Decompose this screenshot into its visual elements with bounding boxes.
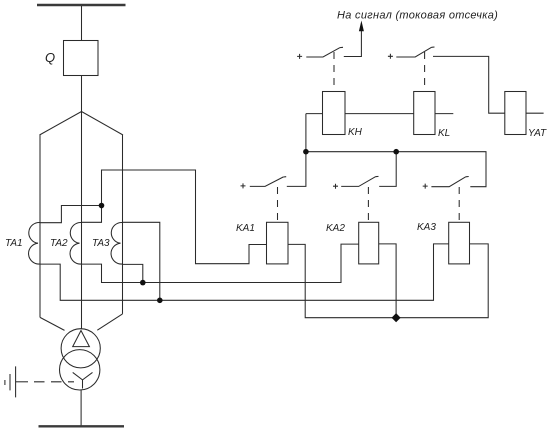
svg-text:TA3: TA3 — [92, 238, 110, 249]
wire TA2 top to node — [82, 206, 102, 223]
wire YAT right stub — [526, 112, 544, 114]
node junction TA3 top on wire — [157, 298, 163, 304]
svg-text:TA2: TA2 — [50, 238, 68, 249]
wire phase C vertical — [122, 135, 124, 314]
svg-text:TA1: TA1 — [5, 238, 23, 249]
wire slant C to transformer — [97, 314, 122, 330]
arrow to signal — [359, 21, 364, 32]
svg-text:Q: Q — [45, 50, 55, 65]
dashed link KA3 — [458, 187, 460, 222]
wire slant A to transformer — [40, 317, 65, 330]
node junction KA2 return — [392, 313, 401, 322]
wire TA3 top down — [123, 222, 160, 300]
wire TA1 bottom to KA3 left — [40, 244, 449, 300]
wire bus to KA2 contact — [379, 152, 396, 187]
wire phase B vertical — [81, 76, 83, 330]
contact KL — [396, 47, 434, 57]
svg-text:KH: KH — [348, 127, 363, 138]
contact KA3 — [431, 177, 468, 187]
current transformer TA2 — [70, 222, 81, 264]
svg-text:KL: KL — [438, 128, 450, 139]
wire KA2 right — [379, 244, 396, 318]
relay KL — [414, 92, 435, 135]
relay KH — [323, 92, 346, 135]
svg-text:KA3: KA3 — [417, 222, 436, 233]
plus KL contact — [388, 54, 393, 59]
dashed link KL — [424, 52, 426, 92]
wire TA2 bottom to KA2 left — [82, 244, 359, 282]
wire KH left / bus to KA1 contact — [287, 114, 323, 187]
current transformer TA3 — [111, 222, 122, 264]
wire phase A vertical — [39, 135, 41, 317]
wire KH right to KL left — [345, 113, 414, 115]
wire ground solid — [16, 381, 28, 383]
svg-text:YAT: YAT — [528, 128, 547, 139]
svg-text:KA1: KA1 — [236, 223, 255, 234]
wire operative bus — [306, 152, 486, 187]
dashed link KH — [333, 52, 335, 92]
ground symbol — [5, 366, 16, 397]
relay coil KA1 — [267, 222, 289, 264]
wire (bus to breaker Q) — [81, 6, 83, 41]
trip coil YAT — [505, 92, 526, 135]
dashed link KA2 — [367, 187, 369, 222]
contact KH — [306, 47, 343, 57]
current transformer TA1 — [29, 222, 40, 264]
bus bar top — [37, 4, 126, 6]
wire node to KA1 left — [102, 170, 267, 264]
node junction TA3 bottom — [140, 280, 146, 286]
wire TA1 top to node — [40, 206, 102, 223]
wire KA1 right / KA3 right / return — [288, 244, 488, 318]
wire TA3 bottom — [123, 264, 143, 282]
relay coil KA2 — [359, 222, 379, 264]
wye winding symbol — [73, 372, 93, 388]
node junction bus KA2 — [393, 149, 399, 155]
wire KL right stub — [435, 113, 453, 115]
wire transformer to bottom bus — [80, 390, 82, 426]
plus KA1 contact — [241, 183, 246, 188]
plus KA2 contact — [333, 184, 338, 189]
contact KA1 — [250, 177, 286, 187]
svg-text:KA2: KA2 — [326, 223, 345, 234]
plus KH contact — [297, 54, 302, 59]
svg-text:На сигнал (токовая отсечка): На сигнал (токовая отсечка) — [337, 9, 498, 21]
plus KA3 contact — [423, 184, 428, 189]
wire contact KH to arrow — [344, 31, 362, 57]
node junction TA1/TA2 tops — [99, 203, 105, 209]
wire contact KL to YAT — [433, 56, 505, 113]
dashed link KA1 — [277, 187, 279, 222]
node roof branch — [40, 112, 124, 136]
wire ground dashed to neutral — [34, 381, 74, 383]
relay coil KA3 — [449, 222, 470, 264]
circuit breaker Q — [64, 41, 99, 76]
transformer T primary circle — [61, 329, 100, 368]
bus bar bottom — [39, 425, 125, 427]
transformer T secondary circle — [59, 350, 99, 390]
delta winding symbol — [73, 331, 90, 347]
node junction bus KH — [303, 149, 309, 155]
contact KA2 — [341, 176, 378, 186]
